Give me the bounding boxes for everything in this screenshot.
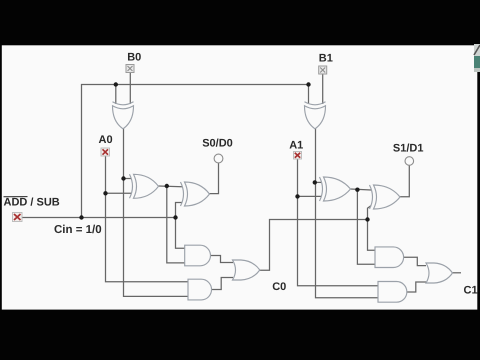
and-gate G2b (A0 AND Bx0) <box>188 279 212 300</box>
wire: Bx1 node to XOR G5 top input <box>315 181 321 183</box>
xor-gate G1 (A0 xor Bx0) <box>130 174 159 198</box>
junction: Bx0 to G1 <box>121 176 125 180</box>
input pad A0 (red) <box>101 148 110 156</box>
junction: C0 node bit1 <box>365 217 369 221</box>
wire: top wire drop to U2 left input <box>308 85 310 105</box>
svg-text:B1: B1 <box>319 53 333 65</box>
svg-text:Cin = 1/0: Cin = 1/0 <box>54 224 102 236</box>
junction: A1 to G5 <box>295 194 299 198</box>
xor-gate U2 (B1 invert, vertical) <box>305 102 326 129</box>
overline bar over ADD <box>4 196 28 198</box>
xor-gate U1 (B0 invert, vertical) <box>113 102 134 129</box>
or-gate G4 (carry C0) <box>233 260 260 280</box>
wire: XOR G3 output up to S0/D0 terminal <box>210 163 219 194</box>
output terminal S1/D1 <box>405 157 414 166</box>
wire: G5 output node down to AND G6a bottom input <box>357 190 377 265</box>
svg-text:ADD / SUB: ADD / SUB <box>4 196 60 208</box>
junction: top wire to U1 <box>114 82 118 86</box>
svg-text:A1: A1 <box>289 139 303 151</box>
and-gate G6a (C0 AND P1) <box>375 247 404 268</box>
junction: G5 output node <box>355 188 359 192</box>
wire: U2 output down / Bx1 net to AND G6 bottom input <box>316 129 379 298</box>
wire: AND G6a output to OR G8 top input <box>404 257 426 265</box>
wire: U1 output down / Bx0 net to AND G2 bottom input <box>124 129 189 297</box>
wire: B1 pad to U2 right input <box>322 74 324 104</box>
wire: A0 pad down to AND G2 top input <box>106 156 189 282</box>
right edge black strip <box>477 72 480 310</box>
and-gate G2a (Cin AND P0) <box>185 245 211 266</box>
xor-gate G7 (sum S1) <box>370 185 401 209</box>
xor-gate G5 (A1 xor Bx1) <box>320 177 351 201</box>
wire: XOR G3 bottom input to Cin node and AND G2a top input <box>176 203 187 249</box>
partial icon top-right <box>474 44 480 72</box>
wire: Bx0 node to XOR G1 top input <box>124 178 132 180</box>
and-gate G6b (A1 AND Bx1) <box>378 282 407 303</box>
wire: A1 node to XOR G5 bottom input <box>298 195 322 197</box>
junction: top wire to U2 <box>306 82 310 86</box>
svg-text:A0: A0 <box>99 134 113 146</box>
wire: XOR G5 output to XOR G7 top input <box>351 189 372 190</box>
wire: OR G8 output C1 stub <box>453 272 462 274</box>
white schematic canvas <box>2 45 478 309</box>
wire: B0 pad to U1 right input <box>129 73 131 105</box>
svg-text:S1/D1: S1/D1 <box>393 143 424 155</box>
wire: A1 pad down to AND G6 top input <box>298 159 379 286</box>
junction: G1 output node <box>165 184 169 188</box>
junction: Cin node <box>173 215 177 219</box>
wire: SUB net top horizontal <box>82 85 309 218</box>
svg-text:C1: C1 <box>464 284 478 296</box>
input pad B0 <box>126 65 134 73</box>
wire: ADD/SUB pad to Cin junction <box>22 217 176 219</box>
xor-gate G3 (sum S0) <box>181 182 210 206</box>
wire: A0 node to XOR G1 bottom input <box>106 192 132 194</box>
svg-text:B0: B0 <box>127 51 141 63</box>
junction: A0 to G1 <box>103 191 107 195</box>
or-gate G8 (carry C1) <box>426 263 453 283</box>
svg-text:C0: C0 <box>272 281 286 293</box>
wire: top wire drop to U1 left input <box>115 85 117 105</box>
wire: OR G4 output C0 net to bit1 Cin junction <box>260 220 368 271</box>
input pad A1 (red) <box>294 152 302 160</box>
junction: SUB riser <box>79 215 83 219</box>
wire: G1 output node down to AND G2a bottom input <box>167 186 186 263</box>
svg-text:S0/D0: S0/D0 <box>202 138 233 150</box>
input pad B1 <box>319 66 327 74</box>
wire: AND G6b output to OR G8 bottom input <box>407 282 426 292</box>
wire: XOR G7 bottom input to C0 node and AND G6a top input <box>368 206 378 251</box>
junction: Bx1 to G5 <box>313 180 317 184</box>
wire: AND G2a output to OR G4 top input <box>211 256 234 263</box>
wire: XOR G7 output up to S1/D1 terminal <box>400 165 409 197</box>
output terminal S0/D0 <box>214 154 223 163</box>
wire: XOR G1 output to XOR G3 top input <box>159 185 183 188</box>
wire: AND G2b output to OR G4 bottom input <box>212 278 234 290</box>
input pad ADD/SUB (red) <box>13 213 23 222</box>
